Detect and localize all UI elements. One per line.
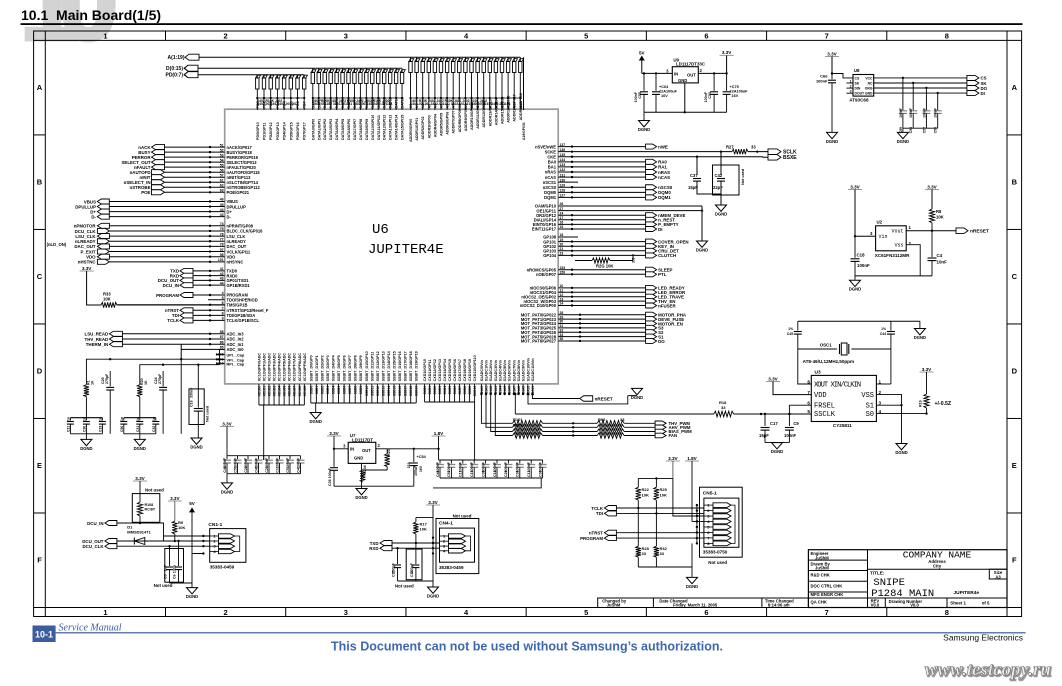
svg-text:S1ADC7/Vin: S1ADC7/Vin [512, 359, 516, 381]
svg-text:SSBIT_D8/GP8: SSBIT_D8/GP8 [354, 355, 358, 381]
svg-text:www.testcopy.ru: www.testcopy.ru [925, 660, 1051, 681]
wire SELECT/GP013 [165, 161, 225, 163]
svg-text:2: 2 [850, 84, 852, 88]
svg-text:SSBIT_D13/GP13: SSBIT_D13/GP13 [381, 351, 385, 381]
svg-text:AT8-49/U,12MHz,50ppm: AT8-49/U,12MHz,50ppm [803, 359, 854, 364]
svg-text:ORG: ORG [865, 87, 873, 91]
capacitor C57 tap [925, 88, 927, 110]
signal flag nCAS [646, 175, 657, 180]
signal flag S1 [646, 334, 657, 339]
svg-text:C17: C17 [770, 421, 778, 426]
svg-text:DATA10/GPI10: DATA10/GPI10 [371, 115, 375, 140]
svg-text:ADDR5/GP05: ADDR5/GP05 [440, 113, 444, 136]
svg-text:4: 4 [222, 291, 224, 295]
svg-text:R23: R23 [387, 449, 391, 456]
signal flag DCU_OUT [180, 278, 193, 283]
svg-text:R101: R101 [513, 417, 523, 422]
cap bank bottom rail [227, 473, 301, 475]
wire GP108 [558, 236, 578, 238]
signal flag VBUS [97, 199, 109, 204]
svg-text:AT93C66: AT93C66 [849, 98, 869, 103]
svg-text:16V: 16V [661, 94, 668, 98]
footer page box 10-1 [33, 626, 56, 643]
svg-text:3.3V: 3.3V [922, 367, 932, 372]
signal flag P_EXIT [97, 249, 109, 254]
wires PWM to flags [624, 422, 655, 424]
svg-text:R22: R22 [642, 487, 650, 492]
svg-text:275pF: 275pF [105, 373, 109, 384]
wire caps ground rail (CN4) [398, 580, 434, 582]
svg-text:S1A3: S1A3 [494, 386, 498, 394]
svg-text:8: 8 [945, 32, 949, 41]
svg-text:R108: R108 [145, 503, 154, 507]
svg-text:CXD9: CXD9 [468, 386, 472, 395]
svg-text:A3: A3 [995, 574, 1001, 579]
svg-text:SSB4: SSB4 [332, 386, 336, 395]
svg-text:Vss: Vss [894, 243, 903, 249]
capacitor C16 330nF [197, 365, 199, 408]
svg-text:GND: GND [678, 78, 687, 83]
svg-text:XC1O4: XC1O4 [278, 386, 282, 397]
svg-text:100nF: 100nF [922, 108, 926, 118]
svg-text:3.3V: 3.3V [82, 266, 92, 271]
signal flag nHSTNC [97, 259, 109, 264]
svg-text:1K: 1K [144, 380, 148, 385]
svg-text:33: 33 [751, 145, 756, 150]
wire nIOCS2_W/GP03 [558, 300, 645, 302]
title block row divider 3 [808, 591, 867, 593]
signal flag nMEM_DEVE [646, 213, 657, 218]
svg-text:S1A0: S1A0 [480, 386, 484, 394]
frame row tick 3 right [1007, 323, 1022, 325]
svg-text:7: 7 [825, 608, 829, 617]
wire BA1 [558, 166, 645, 168]
svg-text:CN5-1: CN5-1 [703, 491, 717, 497]
capacitor C59 [899, 110, 907, 112]
svg-text:R27: R27 [726, 145, 734, 150]
wire PROGRAM [616, 537, 704, 539]
wire 3.3V to U7 IN [333, 436, 335, 449]
svg-text:SSB12: SSB12 [376, 386, 380, 396]
signal flag DEVE_FUSE [646, 317, 657, 322]
svg-text:A: A [1012, 83, 1018, 92]
wire U7 ground rail [334, 485, 414, 487]
wire nIOCS2_OE/GP02 [558, 296, 645, 298]
svg-text:CXD6: CXD6 [453, 386, 457, 395]
svg-text:D(0:15): D(0:15) [166, 66, 183, 72]
svg-text:3.3V: 3.3V [135, 476, 145, 481]
svg-text:33: 33 [620, 417, 625, 422]
ground DGND R1 [85, 434, 87, 439]
capacitor 1nF (CN1) [169, 546, 171, 566]
resistor R231 (U7 adj) [376, 448, 387, 450]
wire 3.3V to R19 [926, 372, 928, 394]
IC U2 box [876, 226, 907, 251]
svg-text:SSB5: SSB5 [337, 386, 341, 395]
svg-text:C5: C5 [164, 574, 168, 579]
signal flag nSTROBE [152, 185, 165, 190]
capacitor C52 [450, 460, 452, 464]
wire VDO [109, 256, 224, 258]
wire nHSYNC [109, 261, 224, 263]
svg-text:XC1O8: XC1O8 [298, 386, 302, 397]
svg-text:DGND: DGND [134, 446, 146, 451]
svg-text:S1A8: S1A8 [517, 386, 521, 394]
capacitor C45 [258, 456, 260, 460]
wire right bank bottom to ground [433, 478, 541, 488]
svg-text:43: 43 [220, 277, 224, 281]
wire THERM_IN down link [180, 359, 182, 434]
svg-text:PD6/GP16: PD6/GP16 [296, 122, 300, 140]
wire OAM/GP10 [558, 205, 702, 207]
svg-text:16V: 16V [419, 465, 423, 472]
svg-text:CXD8: CXD8 [463, 386, 467, 395]
svg-text:1n: 1n [98, 417, 102, 421]
svg-text:3.3V: 3.3V [329, 431, 339, 436]
signal flag LED_TRAVE [646, 294, 657, 299]
svg-text:Vin: Vin [879, 234, 888, 240]
svg-text:100uF: 100uF [414, 465, 418, 476]
svg-text:62: 62 [220, 183, 224, 187]
pin stub columns group D below U6 [480, 384, 482, 394]
svg-text:ADDR6/GP06: ADDR6/GP06 [446, 112, 450, 135]
svg-text:DOUT: DOUT [855, 92, 866, 96]
signal flag TXD [180, 268, 193, 273]
resistor pack RN-A column 1 [415, 57, 420, 110]
svg-text:10K: 10K [936, 215, 944, 220]
svg-text:S1A9: S1A9 [522, 386, 526, 394]
wire U9 GND down [684, 83, 686, 112]
svg-text:SSB7: SSB7 [348, 386, 352, 395]
signal flag CRU_DET [646, 248, 657, 253]
wire nSLCTIN/GPT14 [165, 181, 225, 183]
svg-text:City: City [933, 563, 942, 568]
U8 left pin stubs [846, 82, 853, 84]
svg-text:C39: C39 [538, 470, 542, 477]
svg-text:R234: R234 [363, 465, 367, 474]
wire 1.8V rail to right bank [439, 459, 447, 461]
svg-text:CXD17/GP17: CXD17/GP17 [458, 359, 462, 381]
svg-text:U8: U8 [854, 68, 860, 73]
svg-text:3.3V: 3.3V [827, 51, 837, 56]
svg-text:C30: C30 [82, 426, 86, 432]
capacitor C9 [788, 414, 790, 426]
svg-text:PD3/GP13: PD3/GP13 [276, 122, 280, 140]
signal flag n_REST [646, 217, 657, 222]
wire ADC_In2 [122, 338, 224, 340]
svg-text:S1ADC6/Vin: S1ADC6/Vin [508, 359, 512, 381]
resistor pack RN-D column 6 [347, 68, 352, 110]
svg-text:DGND: DGND [895, 450, 907, 455]
svg-text:ADDR9/GP09: ADDR9/GP09 [464, 108, 468, 131]
svg-text:ADDR15/GP015: ADDR15/GP015 [501, 97, 505, 124]
svg-text:35383-0459: 35383-0459 [210, 565, 235, 570]
svg-text:ADDR7/GP07: ADDR7/GP07 [452, 110, 456, 133]
wire R33 to TMS pin [117, 304, 225, 306]
svg-text:C53: C53 [233, 466, 237, 473]
svg-text:JUPITER4E: JUPITER4E [368, 242, 444, 258]
svg-text:CXD11/GP11: CXD11/GP11 [428, 359, 432, 381]
svg-text:C45: C45 [787, 332, 793, 336]
bus wire D [198, 67, 402, 69]
svg-text:DGND: DGND [914, 335, 926, 340]
svg-text:3: 3 [344, 608, 348, 617]
svg-text:SSB16: SSB16 [398, 386, 402, 396]
signal flag DCU_OUT [105, 539, 117, 544]
svg-text:55: 55 [220, 163, 224, 167]
svg-text:1nF: 1nF [164, 564, 168, 571]
svg-text:LD1117DT: LD1117DT [352, 437, 373, 442]
svg-text:330nF: 330nF [190, 387, 194, 398]
wire group C down to 1.8V rail [474, 402, 476, 460]
wire PROGRAM [193, 294, 225, 296]
wire adj node [386, 467, 388, 470]
signal flag nFAULT [152, 165, 165, 170]
capacitor C41 [300, 456, 302, 460]
wire TXD row [392, 542, 440, 544]
svg-text:DIN: DIN [855, 87, 861, 91]
wire U9 ground rail [644, 111, 727, 113]
junction dots CN5 pins [696, 504, 698, 506]
bus wire A [199, 56, 520, 58]
resistor pack RN-D column 10 [371, 68, 376, 110]
svg-text:C13: C13 [527, 470, 531, 477]
connector CN5-1 inner box [704, 498, 739, 547]
resistor pack RN-A column 2 [421, 57, 426, 110]
svg-text:Friday. March 11. 2005: Friday. March 11. 2005 [673, 603, 718, 608]
wire GP102 [558, 245, 645, 247]
svg-text:S1ADC5/Vin: S1ADC5/Vin [503, 359, 507, 381]
svg-text:TCLK: TCLK [167, 318, 180, 323]
svg-text:GP104: GP104 [543, 253, 556, 258]
svg-text:DATA0/GPI0: DATA0/GPI0 [311, 119, 315, 140]
svg-text:C24: C24 [154, 377, 158, 384]
wire R25 to TDI row [655, 500, 657, 513]
svg-text:SSB8: SSB8 [354, 386, 358, 395]
svg-text:DGND: DGND [190, 445, 202, 450]
svg-text:MFG ENGR CHK: MFG ENGR CHK [811, 592, 844, 597]
svg-text:10K: 10K [660, 493, 667, 498]
svg-text:U6: U6 [372, 222, 389, 238]
svg-text:C50: C50 [120, 426, 124, 432]
svg-text:C25: C25 [265, 466, 269, 473]
frame row tick 1 left [34, 134, 46, 136]
wire to ground bend below U6 [528, 394, 628, 404]
not-used box C16 [189, 389, 204, 425]
svg-text:ADDR8/GP08: ADDR8/GP08 [458, 109, 462, 132]
svg-text:97: 97 [220, 248, 224, 252]
svg-text:6: 6 [704, 32, 708, 41]
CN1-1 pin tails [235, 536, 240, 552]
svg-text:C38: C38 [481, 470, 485, 477]
resistor R33 [101, 302, 117, 307]
capacitor C55 100nF [643, 73, 645, 90]
svg-text:D: D [37, 367, 43, 376]
svg-text:C31: C31 [136, 426, 140, 432]
wire Vout to nRESET [906, 230, 956, 232]
svg-text:SSB9: SSB9 [359, 386, 363, 395]
svg-text:RXD: RXD [369, 546, 378, 551]
svg-text:C41: C41 [296, 466, 300, 473]
svg-text:SSBIT_D16/GP16: SSBIT_D16/GP16 [398, 351, 402, 381]
svg-text:2: 2 [224, 32, 228, 41]
signal flag nTRST [180, 308, 193, 313]
resistor pack RN-PD column 7 [303, 75, 308, 110]
connector CN1-1 outer box [210, 529, 246, 563]
wire PWM row1 bend [481, 394, 512, 423]
wire nINIT/GP113 [165, 176, 225, 178]
svg-text:A(1:19): A(1:19) [168, 55, 185, 61]
svg-text:JuShM: JuShM [607, 602, 621, 607]
svg-text:DGND: DGND [355, 495, 367, 500]
svg-text:XOUT XIN/CLKIN: XOUT XIN/CLKIN [814, 382, 861, 390]
svg-text:C48: C48 [223, 466, 227, 473]
svg-text:PROGRAM: PROGRAM [580, 536, 603, 541]
svg-text:3.3V: 3.3V [428, 500, 438, 505]
capacitor C15 [473, 460, 475, 464]
resistor R18 [714, 411, 734, 417]
svg-text:POE: POE [141, 190, 150, 195]
frame column tick 4 top [525, 31, 527, 40]
ground DGND U2 [854, 276, 856, 280]
svg-text:CXD7: CXD7 [458, 386, 462, 395]
svg-text:C45: C45 [254, 466, 258, 473]
svg-text:CXD10: CXD10 [473, 386, 477, 397]
changed-by strip box [598, 598, 809, 608]
wire nSCS1 [558, 181, 578, 183]
title block row divider 4 [808, 597, 1007, 599]
signal flag S2 [646, 330, 657, 335]
svg-text:R19: R19 [919, 400, 923, 407]
not-used box caps (CN1) [165, 549, 184, 583]
wire C37 C42 commons [697, 181, 721, 205]
svg-text:XC1OUPF6/ADC: XC1OUPF6/ADC [288, 353, 292, 382]
signal flag DQM1 [646, 195, 657, 200]
wire 3.3V to R8 [931, 190, 933, 209]
svg-text:GND: GND [865, 92, 873, 96]
resistor pack RN-D column 9 [365, 68, 370, 110]
svg-text:NC: NC [868, 82, 873, 86]
svg-text:100nF: 100nF [816, 79, 828, 84]
wire nSVE/nWE [558, 146, 645, 148]
svg-text:S1ADC0/Vin: S1ADC0/Vin [480, 359, 484, 381]
svg-text:35383-0750: 35383-0750 [703, 550, 728, 555]
capacitor C4 [931, 231, 933, 257]
wire U7 gnd down [361, 463, 363, 486]
signal flag P_EMPTY [646, 222, 657, 227]
wire GP1B/RXD1 [193, 284, 225, 286]
svg-text:C42: C42 [715, 173, 723, 178]
svg-text:SSBIT_D11/GP11: SSBIT_D11/GP11 [370, 352, 374, 382]
wire SSCLK bend up [514, 394, 516, 414]
signal flag DQM0 [646, 190, 657, 195]
svg-text:DGND: DGND [715, 212, 727, 217]
wire DQM1 [558, 196, 645, 198]
svg-text:JuShM: JuShM [815, 566, 829, 571]
svg-text:Not used: Not used [395, 584, 414, 589]
svg-text:S1A5: S1A5 [503, 386, 507, 394]
wire CN5 pins 5-8 bus [696, 505, 698, 543]
resistor R17 [413, 522, 418, 534]
svg-text:SSB0: SSB0 [309, 386, 313, 395]
title block row divider 0 [808, 559, 867, 561]
signal flag DCU_IN [105, 521, 117, 526]
svg-text:C15: C15 [392, 570, 396, 577]
capacitor C25 [268, 456, 270, 460]
svg-text:61: 61 [220, 178, 224, 182]
svg-text:C44: C44 [880, 332, 886, 336]
svg-text:SSCLK: SSCLK [814, 411, 836, 419]
wire ADC_In3 [122, 333, 224, 335]
svg-text:C50: C50 [708, 92, 712, 99]
capacitor C15 100pF [397, 548, 399, 564]
wire U6 groupA to left cap bank [263, 456, 265, 460]
svg-text:3.3V: 3.3V [722, 50, 732, 55]
wire TDI/GP1B/SDA [193, 314, 225, 316]
frame row tick 2 left [34, 228, 46, 230]
title bottom row dividers [884, 598, 886, 608]
resistor R9 [172, 521, 177, 534]
wire BLDC_CLK/GP016 [109, 230, 224, 232]
wire R22 to TCLK row [637, 500, 639, 508]
schematic border frame [34, 31, 1022, 617]
signal flag PTL [646, 272, 657, 277]
svg-text:LD1117DT33C: LD1117DT33C [676, 62, 706, 67]
svg-text:42: 42 [220, 272, 224, 276]
svg-text:C: C [37, 272, 43, 281]
svg-text:52: 52 [220, 148, 224, 152]
svg-text:Service Manual: Service Manual [59, 623, 122, 634]
wire Vin stub [855, 235, 876, 237]
svg-text:(nLD_ON): (nLD_ON) [47, 242, 67, 247]
wire TXD0 [193, 270, 225, 272]
title block left column [867, 550, 869, 608]
ground DGND below C5x caps [902, 128, 904, 132]
svg-text:Samsung Electronics: Samsung Electronics [943, 633, 1023, 643]
svg-text:MMSD914T1: MMSD914T1 [127, 529, 151, 534]
svg-text:3.3V: 3.3V [850, 184, 860, 189]
wire VSS pin2 [876, 395, 901, 443]
svg-text:10K: 10K [178, 525, 185, 530]
svg-text:Vout: Vout [891, 229, 903, 235]
crystal OSC1 symbol [839, 344, 841, 354]
bus flag PD(0:7) [184, 72, 198, 78]
CN4-1 pin tails [466, 536, 471, 551]
signal flag CLUTCH [646, 253, 657, 258]
pin stub columns group B below U6 [310, 384, 312, 403]
svg-text:CXD1: CXD1 [428, 386, 432, 395]
svg-text:D: D [1012, 367, 1018, 376]
resistor pack RN-PD column 3 [276, 75, 281, 110]
wire R28 R32 ground rail [637, 557, 639, 567]
wire D+ [109, 211, 224, 213]
svg-text:98: 98 [220, 253, 224, 257]
wire DAC_OUT [109, 245, 224, 247]
svg-text:3.3V: 3.3V [768, 376, 778, 381]
wire MOT_PAT0/GP022 [558, 314, 645, 316]
svg-text:54: 54 [220, 158, 224, 162]
svg-text:C4: C4 [937, 253, 943, 258]
frame column tick 7 bottom [886, 608, 888, 617]
frame column tick 6 top [766, 31, 768, 40]
signal flag nFUSER [646, 303, 657, 308]
svg-text:22A: 22A [407, 461, 411, 468]
svg-text:SSBIT_D15/GP15: SSBIT_D15/GP15 [393, 351, 397, 381]
collect wire group A [259, 404, 304, 406]
capacitor C42 (not used) [717, 178, 725, 180]
wire ground drop CN4 [432, 553, 434, 586]
capacitor C14 [496, 460, 498, 464]
